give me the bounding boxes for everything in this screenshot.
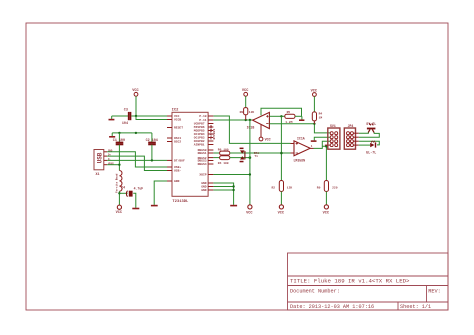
svg-text:VCC: VCC bbox=[116, 211, 123, 215]
ground (IC2 right GND) bbox=[230, 205, 237, 207]
wire ferrite to VCC node bbox=[118, 191, 120, 205]
wire IC2 XDIP pin to LED column bbox=[213, 174, 250, 176]
wire USB pin2 to IC2 bbox=[107, 156, 167, 170]
resistor R2 12K with VCC bbox=[280, 116, 282, 180]
JP4 right pin stubs bbox=[354, 133, 359, 145]
wire USB pin1 to IC2 bbox=[107, 152, 167, 167]
svg-text:Document Number:: Document Number: bbox=[290, 289, 340, 295]
capacitor C4 polarized 4.7uF bbox=[126, 191, 132, 197]
svg-text:VCC: VCC bbox=[242, 89, 249, 93]
svg-text:VCCB: VCCB bbox=[174, 119, 181, 122]
inductor L1 ferrite bead bbox=[119, 171, 122, 192]
diode LED pair D1/D2 bbox=[240, 148, 245, 163]
svg-text:AINPB1: AINPB1 bbox=[194, 144, 205, 147]
svg-text:OSC2: OSC2 bbox=[174, 141, 181, 144]
wire C3 to IC2 VCC pin bbox=[131, 115, 167, 117]
title block outline bbox=[288, 253, 449, 310]
svg-text:EL-7L: EL-7L bbox=[366, 151, 376, 155]
svg-text:GND: GND bbox=[201, 189, 207, 192]
wire LED column vertical bbox=[249, 120, 251, 205]
ground (left of C3) bbox=[109, 116, 115, 120]
ground (IC2 GND) bbox=[151, 205, 158, 207]
connector X1 USB bbox=[94, 150, 104, 170]
svg-text:T2313DL: T2313DL bbox=[172, 200, 189, 204]
svg-text:C4: C4 bbox=[121, 186, 125, 190]
wire C4 to ground bbox=[133, 193, 136, 208]
node XDIP junction bbox=[249, 173, 251, 175]
connector JP4 bbox=[344, 128, 355, 149]
svg-text:C2 104: C2 104 bbox=[146, 139, 158, 143]
frame border bbox=[26, 23, 448, 310]
wire IC1A output to SV1 row3 bbox=[314, 141, 331, 148]
svg-text:12K: 12K bbox=[287, 186, 293, 189]
ground (right of R5) bbox=[299, 116, 304, 120]
node pin3 junction bbox=[151, 159, 153, 161]
svg-text:Sheet: 1/1: Sheet: 1/1 bbox=[400, 304, 431, 310]
capacitor C1 bbox=[118, 133, 120, 142]
svg-text:R4 100: R4 100 bbox=[218, 162, 229, 165]
ground (SV1 row2) bbox=[311, 137, 330, 141]
supply VCC (above R8) bbox=[244, 92, 248, 96]
node GND junctions bbox=[232, 185, 234, 187]
ground (left end of gnd rail) bbox=[109, 133, 115, 137]
wire IC2 PD1 to IC1B output bbox=[213, 119, 253, 121]
svg-text:4.7uF: 4.7uF bbox=[134, 187, 144, 191]
supply VCC (below R9) bbox=[324, 205, 328, 209]
svg-text:GND: GND bbox=[174, 180, 180, 183]
svg-text:IC1B: IC1B bbox=[247, 125, 255, 129]
ground (below C4) bbox=[132, 208, 139, 210]
svg-text:VCC: VCC bbox=[132, 89, 139, 93]
wire IC2 GND pin to ground bbox=[154, 181, 167, 205]
wire USB pin3 to C2 net bbox=[107, 159, 152, 161]
svg-text:JP4: JP4 bbox=[348, 124, 354, 128]
svg-text:IC2: IC2 bbox=[172, 108, 180, 112]
svg-text:R9: R9 bbox=[317, 186, 321, 189]
wire IC1B +in to R5 bbox=[269, 115, 284, 117]
svg-text:VCC: VCC bbox=[323, 211, 330, 215]
wire VCC to C3 node bbox=[135, 96, 137, 116]
connector SV1 bbox=[328, 128, 340, 149]
svg-text:R2: R2 bbox=[272, 186, 276, 189]
svg-text:RESET: RESET bbox=[174, 127, 183, 130]
wire R6 to LED / IC1A -in bbox=[230, 152, 291, 154]
wire to C4 bbox=[119, 192, 127, 194]
svg-text:DBGS1: DBGS1 bbox=[198, 152, 207, 155]
wire IC2 GND pins to ground bbox=[213, 183, 233, 205]
node R4 junction bbox=[313, 123, 315, 125]
wire C1 down to VBUS node bbox=[118, 145, 120, 171]
svg-text:VCC: VCC bbox=[278, 211, 285, 215]
svg-text:104: 104 bbox=[122, 122, 128, 126]
node IC1A -in junction bbox=[280, 152, 283, 155]
wire R5 right / feedback loop bbox=[295, 115, 302, 117]
IC2 left pin stubs bbox=[167, 116, 172, 181]
node VCC junction bbox=[135, 115, 137, 117]
supply VCC (below LED column) bbox=[248, 205, 252, 209]
svg-text:C1 100: C1 100 bbox=[113, 139, 125, 143]
svg-text:USB-: USB- bbox=[174, 170, 181, 173]
svg-text:220: 220 bbox=[332, 186, 338, 189]
wire JP4 row2 to IR receiver right leg bbox=[359, 133, 380, 138]
node LED column junction bbox=[249, 119, 251, 121]
svg-text:R4: R4 bbox=[319, 113, 323, 116]
svg-text:B7PBL1: B7PBL1 bbox=[213, 128, 216, 139]
svg-text:TITLE: Fluke 189 IR v1.4<TX R: TITLE: Fluke 189 IR v1.4<TX RX LED> bbox=[290, 278, 410, 285]
resistor R8 12K bbox=[245, 96, 247, 107]
svg-text:R8: R8 bbox=[240, 111, 244, 114]
node VCC-C4 junction bbox=[118, 192, 120, 194]
svg-text:VCC: VCC bbox=[311, 89, 318, 93]
svg-text:XDIP: XDIP bbox=[199, 174, 206, 177]
resistor R6 100 bbox=[213, 152, 219, 154]
svg-text:REV:: REV: bbox=[428, 289, 440, 295]
svg-text:VCC: VCC bbox=[246, 211, 253, 215]
pin stub SV1 row4 bbox=[325, 144, 330, 146]
USB pin labels bbox=[108, 149, 114, 165]
svg-text:C3: C3 bbox=[124, 109, 128, 113]
node C1 junction bbox=[118, 132, 120, 134]
svg-text:1M: 1M bbox=[319, 116, 323, 119]
wire R4b to LED column bbox=[230, 157, 250, 159]
supply VCC (above R4) bbox=[313, 93, 317, 97]
svg-text:X1: X1 bbox=[96, 173, 100, 177]
svg-text:DBGS4: DBGS4 bbox=[198, 163, 207, 166]
svg-text:Date: 2013-12-03 AM 1:07:16: Date: 2013-12-03 AM 1:07:16 bbox=[290, 304, 374, 310]
wire JP4 row3 to LED D3 bbox=[359, 141, 380, 145]
IC2 left pin names bbox=[174, 115, 185, 183]
node R2 column top junction bbox=[280, 115, 282, 117]
node R8 junction bbox=[245, 119, 247, 121]
node VBUS junction bbox=[118, 164, 120, 166]
wire USB VBUS to ferrite bbox=[107, 164, 119, 166]
USB pin stubs bbox=[104, 152, 107, 165]
supply VCC (below R2) bbox=[279, 205, 283, 209]
capacitor C3 bbox=[129, 112, 131, 120]
node R9 junction bbox=[325, 145, 328, 148]
wire IC2 PD0 to IC1A +input bbox=[213, 116, 290, 143]
ic IC2 T2313DL box bbox=[172, 112, 208, 196]
svg-text:LM358N: LM358N bbox=[294, 159, 306, 163]
wire JP4 row1 to IR receiver left leg bbox=[359, 131, 369, 134]
wire C2 to IC2 pin bbox=[152, 145, 167, 161]
IC2 right pin stubs bbox=[208, 116, 213, 190]
wire ground rail bbox=[112, 132, 152, 134]
svg-text:R5: R5 bbox=[287, 111, 291, 114]
wire VCC to IC2 VCCB pin bbox=[136, 116, 167, 120]
svg-text:DT/BUF: DT/BUF bbox=[174, 159, 185, 163]
svg-text:Ferrite Bead: Ferrite Bead bbox=[114, 173, 118, 193]
node rail junction bbox=[135, 132, 137, 134]
svg-text:T1: T1 bbox=[254, 155, 258, 158]
op-amp IC1B (points left) bbox=[253, 112, 270, 128]
SV1 pin circles bbox=[330, 132, 338, 147]
JP4 pin circles bbox=[347, 132, 354, 147]
wire JP4 row4 to LED D3 left bbox=[359, 144, 370, 146]
svg-text:R6 100: R6 100 bbox=[218, 148, 229, 151]
supply VCC (below ferrite) bbox=[117, 205, 121, 209]
supply VCC (top left) bbox=[134, 92, 138, 96]
node LED column mid junction bbox=[249, 156, 252, 159]
IC1B power pin to VCC bbox=[260, 125, 262, 137]
svg-text:IC1A: IC1A bbox=[297, 136, 305, 140]
resistor R9 220 with VCC bbox=[324, 181, 328, 192]
svg-text:P-10: P-10 bbox=[199, 115, 206, 118]
resistor R5 1.2M bbox=[285, 114, 295, 118]
resistor R4 1M bbox=[313, 96, 315, 112]
IC2 right pin names bbox=[194, 115, 207, 192]
wire ground to C3 left plate bbox=[112, 115, 128, 117]
resistor R4b 100 bbox=[213, 157, 219, 159]
capacitor C2 bbox=[151, 133, 153, 142]
svg-text:SV1: SV1 bbox=[330, 124, 336, 128]
svg-text:VCC: VCC bbox=[265, 139, 271, 143]
svg-text:USB: USB bbox=[97, 152, 104, 163]
op-amp IC1A (points right) bbox=[294, 141, 310, 156]
diode LED D3 EL-7L bbox=[370, 142, 376, 147]
wire output branch to R9 bbox=[322, 146, 326, 180]
svg-text:12K: 12K bbox=[249, 111, 255, 114]
wire IC1B -in long net to SV1 bbox=[269, 124, 330, 133]
svg-text:SY-7L: SY-7L bbox=[366, 122, 376, 126]
